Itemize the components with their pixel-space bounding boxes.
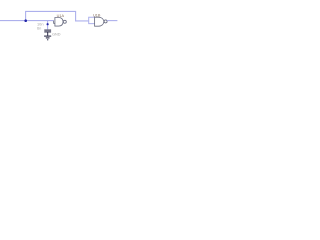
wire U2 input jogs bbox=[89, 17, 95, 23]
node junction dot A bbox=[24, 19, 27, 22]
capacitor C1 lower lead bbox=[47, 32, 49, 36]
wire U1B output net bbox=[107, 20, 117, 22]
gate U1A (NAND inverter) body bbox=[55, 18, 63, 27]
wire feedback loop top bbox=[26, 11, 89, 21]
svg-text:U1B: U1B bbox=[93, 13, 101, 17]
node junction dot B on capacitor branch bbox=[47, 23, 49, 25]
capacitor C1 plates bbox=[44, 30, 51, 32]
svg-text:GND: GND bbox=[52, 32, 61, 36]
gate U1A input jog bbox=[54, 21, 55, 24]
wire main input net bbox=[0, 20, 54, 22]
gate U1A output bubble bbox=[63, 20, 66, 23]
ground bbox=[44, 36, 51, 40]
wire capacitor branch bbox=[47, 21, 49, 30]
svg-text:6n: 6n bbox=[37, 26, 41, 31]
svg-text:U1A: U1A bbox=[57, 14, 65, 18]
gate U1B (NAND inverter) body bbox=[95, 17, 104, 26]
gate U1B output bubble bbox=[104, 20, 107, 23]
